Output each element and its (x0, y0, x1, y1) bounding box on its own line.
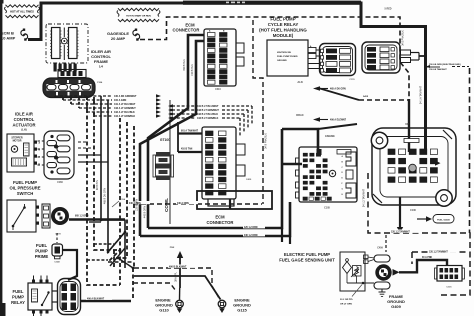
frame ground symbol (381, 289, 383, 292)
wire bundle solid 1 (100, 96, 102, 220)
svg-text:IDLE AIR: IDLE AIR (15, 112, 33, 117)
svg-text:S415: S415 (363, 95, 369, 98)
fuel pump cycle relay box (267, 40, 308, 76)
svg-text:406 B BLK/WHT: 406 B BLK/WHT (169, 266, 187, 269)
svg-text:C105: C105 (324, 207, 330, 210)
svg-text:34-2 PNK/BLK: 34-2 PNK/BLK (402, 30, 405, 46)
nest extra segments (101, 219, 125, 221)
svg-text:20 AMP: 20 AMP (111, 36, 126, 41)
wire GAGE/IDLE fused feed (dashed) (140, 17, 409, 99)
wire bundle dashed 1 (87, 96, 120, 285)
connector C104 housing (43, 78, 95, 98)
wire oil switch drop (124, 220, 126, 269)
splice bracket (401, 50, 411, 55)
scan border left edge (0, 0, 2, 316)
wire C100 bottom drop (399, 197, 401, 228)
svg-text:HOT IN START OR RUN: HOT IN START OR RUN (126, 14, 151, 17)
arrow from connector (393, 269, 400, 276)
IAC coil A (52, 28, 61, 59)
svg-text:406 A BLK/WHT: 406 A BLK/WHT (87, 298, 105, 301)
stub box-to-C160 wires (38, 140, 45, 142)
svg-text:443 A LT GRN/WHT: 443 A LT GRN/WHT (114, 107, 136, 110)
wire diag (108, 232, 125, 252)
svg-text:FUEL GAGE: FUEL GAGE (437, 219, 450, 222)
svg-text:441 A LT BLU/WHT: 441 A LT BLU/WHT (114, 103, 136, 106)
svg-text:442 A LT BLU/BLK: 442 A LT BLU/BLK (114, 111, 135, 114)
svg-text:C410: C410 (246, 178, 252, 181)
svg-text:34-1.2 TAN/WHT: 34-1.2 TAN/WHT (363, 188, 366, 207)
fuel pump relay box (28, 283, 52, 310)
junction box at ECM base (197, 191, 272, 209)
svg-text:FUEL PUMP: FUEL PUMP (13, 180, 37, 185)
IAC wire rows with labels (54, 96, 56, 97)
svg-text:C160: C160 (57, 182, 63, 184)
connector C105 (299, 147, 357, 202)
svg-text:FUEL PUMP FUSED: FUEL PUMP FUSED (277, 56, 298, 58)
svg-text:PRIME: PRIME (35, 254, 49, 259)
wire bundle dashed 3 (108, 118, 120, 262)
svg-text:ALN: ALN (297, 80, 302, 84)
svg-text:FUEL: FUEL (36, 243, 48, 248)
relay bottom stubs (33, 314, 35, 316)
wire prime feed (63, 250, 78, 280)
wire sender to frame connector (399, 260, 447, 272)
svg-text:441 B LT BLU/WHT: 441 B LT BLU/WHT (197, 105, 219, 108)
svg-text:410 B TAN: 410 B TAN (181, 148, 193, 151)
svg-text:FUEL: FUEL (13, 289, 24, 294)
svg-text:FUEL PUMP: FUEL PUMP (270, 17, 295, 22)
svg-text:442 B LT BLU/BLK: 442 B LT BLU/BLK (197, 113, 218, 116)
relay output links (316, 49, 322, 51)
fuse ECM-B (23, 34, 27, 39)
ground G115 (218, 300, 226, 308)
fuel sending unit box (340, 252, 365, 291)
IAC pins (54, 64, 57, 72)
frame connector C101 (437, 266, 462, 282)
svg-text:FRAME: FRAME (94, 59, 109, 64)
wire dashed junction drop (132, 268, 134, 300)
connector C149 (58, 279, 81, 315)
svg-text:901 A TAN/WHT: 901 A TAN/WHT (181, 130, 199, 133)
svg-text:C409: C409 (377, 247, 383, 250)
svg-text:C101: C101 (446, 287, 452, 289)
svg-text:UP: UP (405, 122, 409, 126)
idle air control actuator box (7, 134, 34, 172)
wire into lower ECM pin (410 B TAN) (178, 151, 202, 153)
svg-text:465 B DK GRN: 465 B DK GRN (104, 188, 107, 204)
svg-text:FUEL GAGE SENDING UNIT: FUEL GAGE SENDING UNIT (279, 258, 335, 263)
fuse GAGE/IDLE (135, 34, 139, 39)
connector C178 round (51, 207, 69, 225)
svg-text:OR LT GRN: OR LT GRN (340, 304, 352, 306)
stub to stepper C (78, 154, 101, 156)
svg-text:30 J OR PPL: 30 J OR PPL (340, 299, 354, 301)
scan border top-left corner (0, 0, 4, 4)
svg-text:120 1.2 TAN/WHT: 120 1.2 TAN/WHT (391, 231, 410, 234)
dashed frame boundary (tank area) (368, 173, 470, 295)
label 120 1.2 ORN (243, 225, 265, 228)
relay-to-C149 links (52, 290, 58, 292)
svg-text:5 RED: 5 RED (384, 8, 391, 11)
fuse box HOT IN START OR RUN (118, 8, 159, 10)
wire PPL riser with arrow (179, 257, 181, 288)
stub to stepper D (78, 161, 108, 163)
wire ECM-B feed (thick, top run to right side) (28, 3, 426, 150)
IAC pivot circle (61, 38, 67, 44)
svg-text:G409: G409 (391, 304, 402, 309)
label 120 1.2 TAN/WHT (2) (428, 250, 459, 253)
svg-text:G115: G115 (237, 308, 247, 313)
svg-text:COWL: COWL (164, 198, 169, 212)
wire bundle solid 2 (108, 100, 125, 252)
svg-text:450 B BLK: 450 B BLK (183, 59, 186, 71)
arrow 465 row (313, 86, 320, 91)
stub to stepper B (78, 147, 94, 149)
wire ECM pin B feed (140, 41, 204, 236)
svg-text:34 B PNK/BLK: 34 B PNK/BLK (265, 133, 268, 149)
wire 120 1.2 ORN (148, 129, 282, 228)
IAC center bar (63, 28, 65, 38)
svg-text:IGNITION SW: IGNITION SW (277, 52, 292, 54)
connector C177 (362, 42, 400, 73)
wire bundle dashed 4 (114, 122, 127, 268)
svg-text:ACTUATOR: ACTUATOR (12, 123, 35, 128)
arrow 406 row (313, 117, 320, 122)
svg-text:30 A PNK: 30 A PNK (422, 256, 433, 259)
sending unit connector ovals (374, 255, 390, 262)
ECM connector lower body+pins (202, 127, 236, 199)
ECM wire rows with labels (right) (168, 104, 173, 107)
wire bundle dashed 5 (133, 126, 135, 268)
svg-text:150 B BLK: 150 B BLK (191, 64, 194, 76)
svg-text:MOTOR: MOTOR (13, 140, 22, 143)
svg-text:PUMP: PUMP (12, 295, 24, 300)
wire C149 to grounds (406 A BLK/WHT) (81, 300, 132, 303)
svg-text:CYCLE RELAY: CYCLE RELAY (268, 22, 299, 27)
svg-text:GT100: GT100 (160, 138, 170, 142)
wire ECM base drop (229, 199, 231, 209)
dashed harness bottom edge 440 A ORN (133, 203, 262, 205)
scan border bottom-left blob (0, 303, 6, 316)
IAC coil B (69, 28, 78, 59)
svg-text:443 B LT GRN/WHT: 443 B LT GRN/WHT (197, 109, 219, 112)
svg-text:120 B ORN: 120 B ORN (136, 199, 139, 211)
white ticks on top wire (scan text) (226, 2, 229, 4)
wire to C105 top (solid) (282, 129, 318, 152)
ground G110 (176, 300, 184, 308)
fuse box HOT AT ALL TIMES (6, 5, 39, 7)
connector C148 (56, 233, 58, 243)
ECM connector upper body+pins (204, 29, 236, 86)
svg-text:CONNECTOR: CONNECTOR (207, 220, 234, 225)
idle air control motor enclosure (dash-dot) (46, 24, 88, 63)
wire solid to G115 (134, 276, 221, 300)
sending unit round connector (375, 264, 391, 280)
svg-text:S114: S114 (120, 198, 126, 201)
fuel pump oil pressure switch box (7, 200, 36, 232)
svg-text:120 1.2 TAN/WHT: 120 1.2 TAN/WHT (429, 251, 448, 254)
connector C104 mid piece (58, 70, 86, 78)
label 440 1.2 ORN (243, 233, 265, 236)
label 406 A BLK/WHT (86, 297, 112, 300)
junction dots (107, 251, 110, 254)
wire into lower ECM branch riser (177, 122, 179, 152)
svg-text:440 A ORN: 440 A ORN (177, 202, 189, 205)
svg-text:150 LB TAN/WHT: 150 LB TAN/WHT (429, 68, 447, 71)
dashed right-edge boundary (469, 68, 471, 233)
svg-text:SWITCH: SWITCH (17, 191, 34, 196)
wire oil switch output (69, 218, 125, 220)
wire bundle dashed 2 (94, 100, 118, 250)
svg-text:OIL PRESSURE: OIL PRESSURE (9, 186, 40, 191)
svg-text:440 B ORN: 440 B ORN (144, 206, 147, 218)
connector C178 terminals (42, 204, 50, 228)
svg-text:150 LB GRN (SUB-TRAN GND): 150 LB GRN (SUB-TRAN GND) (429, 63, 461, 66)
svg-text:ENGINE: ENGINE (325, 135, 335, 138)
svg-text:PNK: PNK (170, 247, 175, 249)
arrow to FUEL GAGE (417, 218, 426, 220)
svg-text:CONNECTOR: CONNECTOR (173, 28, 200, 33)
svg-text:444 A LT GRN/BLK: 444 A LT GRN/BLK (114, 115, 135, 118)
wire ECM pin A feed (148, 35, 204, 228)
svg-text:ECM: ECM (215, 215, 225, 220)
wire 440 1.2 ORN (140, 202, 290, 236)
svg-text:C178: C178 (55, 234, 61, 236)
svg-text:(HOT FUEL HANDLING: (HOT FUEL HANDLING (259, 28, 307, 33)
svg-text:DRAC: DRAC (296, 113, 304, 117)
dashed inner tank edge (412, 252, 468, 264)
svg-text:HOT AT ALL TIMES: HOT AT ALL TIMES (10, 10, 34, 14)
svg-text:34-1 A TAN/WHT: 34-1 A TAN/WHT (420, 85, 423, 104)
svg-text:C410: C410 (215, 88, 221, 91)
cowl panel line (169, 100, 171, 224)
stub to stepper A (78, 141, 87, 143)
svg-text:G110: G110 (159, 308, 169, 313)
svg-text:(LH): (LH) (21, 128, 26, 132)
svg-text:120 1.2 ORN: 120 1.2 ORN (244, 227, 258, 229)
connector C160 (44, 131, 74, 179)
svg-text:440 1.2 ORN: 440 1.2 ORN (244, 234, 258, 237)
wire into lower ECM pin (901 A TAN/WHT) (178, 132, 202, 134)
svg-text:RELAY: RELAY (11, 300, 25, 305)
label 120 1.2 TAN/WHT (1) (390, 230, 420, 233)
svg-text:ELECTRIC FUEL PUMP: ELECTRIC FUEL PUMP (284, 252, 330, 257)
svg-text:444 B LT GRN/BLK: 444 B LT GRN/BLK (197, 117, 219, 120)
svg-text:CONTROL: CONTROL (14, 117, 35, 122)
svg-text:C148: C148 (54, 261, 60, 264)
svg-text:465 A DK GRN: 465 A DK GRN (330, 88, 346, 91)
svg-text:100 A GRN: 100 A GRN (114, 99, 126, 102)
dashed harness boundary right of ECM (253, 20, 263, 204)
svg-text:PUMP: PUMP (35, 249, 48, 254)
svg-text:MODULE): MODULE) (273, 33, 294, 38)
relay top stubs (33, 276, 35, 280)
splice fan S415 (320, 89, 359, 101)
svg-text:905 1.2 ORN: 905 1.2 ORN (75, 216, 89, 218)
svg-text:C176: C176 (349, 79, 355, 81)
svg-text:C100: C100 (410, 209, 416, 212)
connector C100 (372, 128, 456, 205)
connector C176 (320, 44, 356, 76)
svg-text:10 AMP: 10 AMP (1, 36, 16, 41)
svg-text:39 B PPL: 39 B PPL (96, 179, 99, 190)
svg-text:C104: C104 (97, 81, 103, 84)
wire S415 to C100 (dashed then solid) (359, 99, 409, 101)
svg-text:406 A ELEMNT: 406 A ELEMNT (330, 119, 347, 122)
svg-text:1/4: 1/4 (99, 65, 104, 69)
svg-text:GROUND: GROUND (277, 60, 287, 62)
wire dashed 406 B BLK/WHT (134, 268, 219, 298)
grommet GT100 (156, 152, 170, 157)
svg-text:440 A DK GRN/WHT: 440 A DK GRN/WHT (114, 95, 137, 98)
